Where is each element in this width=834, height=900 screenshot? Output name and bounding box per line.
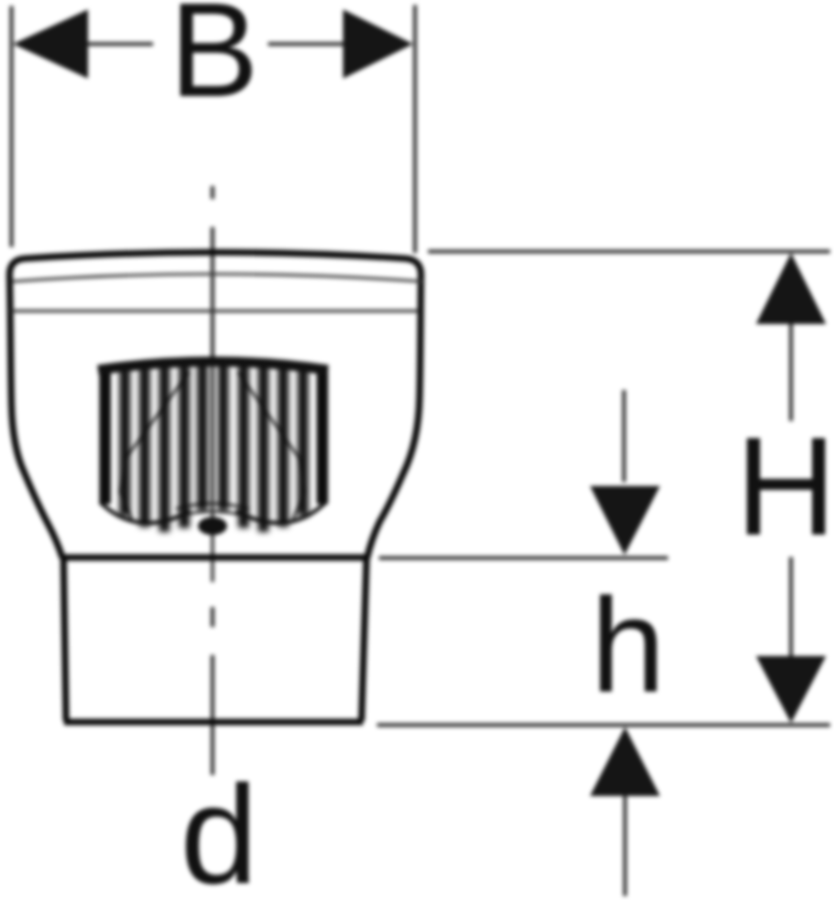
- bottom arrow up: [590, 727, 660, 796]
- dimension line B right segment: [268, 42, 345, 46]
- grille outer bars: [99, 368, 328, 504]
- svg-text:B: B: [169, 0, 258, 125]
- spigot bottom edge: [64, 719, 363, 726]
- dimension line B left segment: [86, 42, 153, 46]
- extension line top right (H): [428, 250, 830, 254]
- centerline solid upper: [211, 227, 215, 362]
- centerline solid bottom: [211, 655, 215, 775]
- svg-text:d: d: [180, 756, 258, 900]
- bottom arrow stem: [623, 796, 627, 896]
- grille bottom knob: [198, 517, 227, 535]
- centerline dash top: [211, 186, 215, 199]
- cap body outline: [10, 252, 422, 558]
- extension line left (B): [10, 6, 14, 247]
- grille bottom rim arc outer: [183, 512, 242, 516]
- grille top band: [98, 362, 328, 371]
- h arrow down onto shoulder: [590, 486, 660, 555]
- H stem upper: [789, 324, 793, 421]
- h stem upper: [622, 390, 626, 482]
- svg-text:h: h: [591, 572, 666, 721]
- cap inner cone diagonal right: [238, 372, 305, 519]
- grille slotted cylinder bars: [119, 362, 308, 533]
- extension line shoulder right (h): [379, 556, 668, 560]
- cap inner cone diagonal left: [120, 372, 189, 519]
- cap rim seam line: [12, 274, 423, 282]
- spigot left edge: [64, 558, 67, 721]
- spigot right edge: [362, 558, 367, 721]
- grille bottom hem left: [100, 502, 190, 523]
- grille bottom hem right: [236, 502, 326, 523]
- grille bottom rim arc inner: [176, 504, 249, 510]
- centerline dash lower: [211, 607, 215, 627]
- svg-text:H: H: [735, 408, 834, 565]
- arrowhead B right: [343, 10, 413, 79]
- cap lower rim line: [11, 310, 420, 313]
- extension line bottom right: [377, 723, 830, 727]
- H arrow down: [756, 656, 826, 723]
- arrowhead B left: [13, 10, 88, 79]
- shoulder line: [61, 554, 369, 561]
- extension line right (B): [413, 5, 417, 253]
- H arrow up: [756, 253, 826, 324]
- H stem lower: [789, 557, 793, 656]
